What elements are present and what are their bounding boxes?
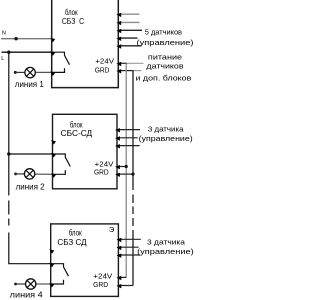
svg-text:5 датчиков: 5 датчиков	[145, 28, 182, 37]
svg-text:(управление): (управление)	[139, 134, 194, 143]
svg-text:СБЗ СД: СБЗ СД	[57, 238, 87, 247]
svg-text:СБЗ С: СБЗ С	[62, 17, 84, 26]
svg-text:(управление): (управление)	[137, 38, 194, 47]
svg-text:линия 1: линия 1	[15, 80, 45, 89]
svg-text:N: N	[2, 31, 6, 37]
svg-text:СБС-СД: СБС-СД	[61, 129, 93, 138]
svg-text:и доп. блоков: и доп. блоков	[136, 74, 192, 83]
svg-text:(управление): (управление)	[137, 247, 194, 256]
svg-text:датчиков: датчиков	[146, 61, 183, 70]
svg-text:линия 2: линия 2	[16, 183, 46, 192]
svg-text:3 датчика: 3 датчика	[147, 238, 186, 247]
svg-text:Э: Э	[109, 225, 115, 234]
svg-text:GRD: GRD	[95, 65, 110, 74]
svg-text:L: L	[1, 56, 4, 62]
svg-text:+24V: +24V	[95, 57, 114, 66]
svg-text:линия 4: линия 4	[10, 291, 44, 300]
svg-text:GRD: GRD	[93, 280, 109, 289]
svg-text:блок: блок	[69, 229, 82, 238]
svg-text:3 датчика: 3 датчика	[148, 124, 184, 133]
svg-text:GRD: GRD	[94, 168, 109, 177]
svg-text:блок: блок	[65, 8, 78, 17]
